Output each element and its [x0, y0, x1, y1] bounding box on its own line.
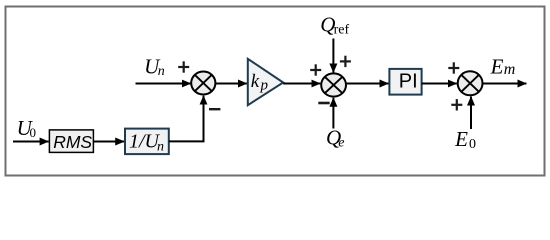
wire kp to sum2: [283, 83, 320, 85]
plus sign E0 input: [451, 99, 462, 110]
plus sign Un input: [178, 61, 189, 72]
svg-text:E: E: [454, 127, 468, 151]
border frame: [6, 7, 545, 176]
wire sum2 to PI: [347, 83, 389, 85]
summing junction S2: [321, 73, 346, 96]
amplifier kp triangle: [248, 59, 283, 105]
minus sign Qe input: [318, 102, 329, 105]
svg-text:n: n: [158, 64, 165, 79]
wire E0 up to sum3: [470, 97, 472, 130]
wire RMS to 1/Un: [94, 141, 125, 143]
plus sign Qref input: [340, 56, 351, 67]
wire output Em: [483, 83, 527, 85]
minus sign at sum1: [209, 108, 220, 110]
block PI: [389, 69, 421, 95]
svg-text:0: 0: [30, 125, 37, 140]
plus sign PI input: [448, 62, 459, 73]
svg-text:k: k: [251, 71, 260, 92]
svg-text:PI: PI: [399, 71, 418, 93]
svg-text:RMS: RMS: [53, 132, 92, 152]
block RMS: [49, 130, 93, 153]
wire PI to sum3: [422, 83, 457, 85]
summing junction S3: [458, 71, 483, 95]
svg-text:ref: ref: [334, 22, 350, 37]
wire Qe up to sum2: [332, 98, 334, 129]
plus sign kp input: [310, 64, 321, 75]
svg-text:1/U: 1/U: [129, 130, 161, 152]
wire U0 input: [13, 141, 49, 143]
svg-text:p: p: [260, 78, 269, 94]
wire Qref down to sum2: [332, 39, 334, 73]
svg-text:E: E: [490, 54, 504, 78]
svg-text:n: n: [157, 140, 164, 155]
wire Un input: [136, 83, 191, 85]
svg-text:e: e: [338, 135, 344, 150]
summing junction S1: [191, 72, 215, 95]
wire feedback 1/Un up to sum1: [169, 96, 204, 142]
wire sum1 to kp: [215, 83, 247, 85]
block 1/Un: [125, 129, 169, 155]
svg-text:0: 0: [469, 137, 476, 152]
svg-text:m: m: [504, 61, 516, 78]
